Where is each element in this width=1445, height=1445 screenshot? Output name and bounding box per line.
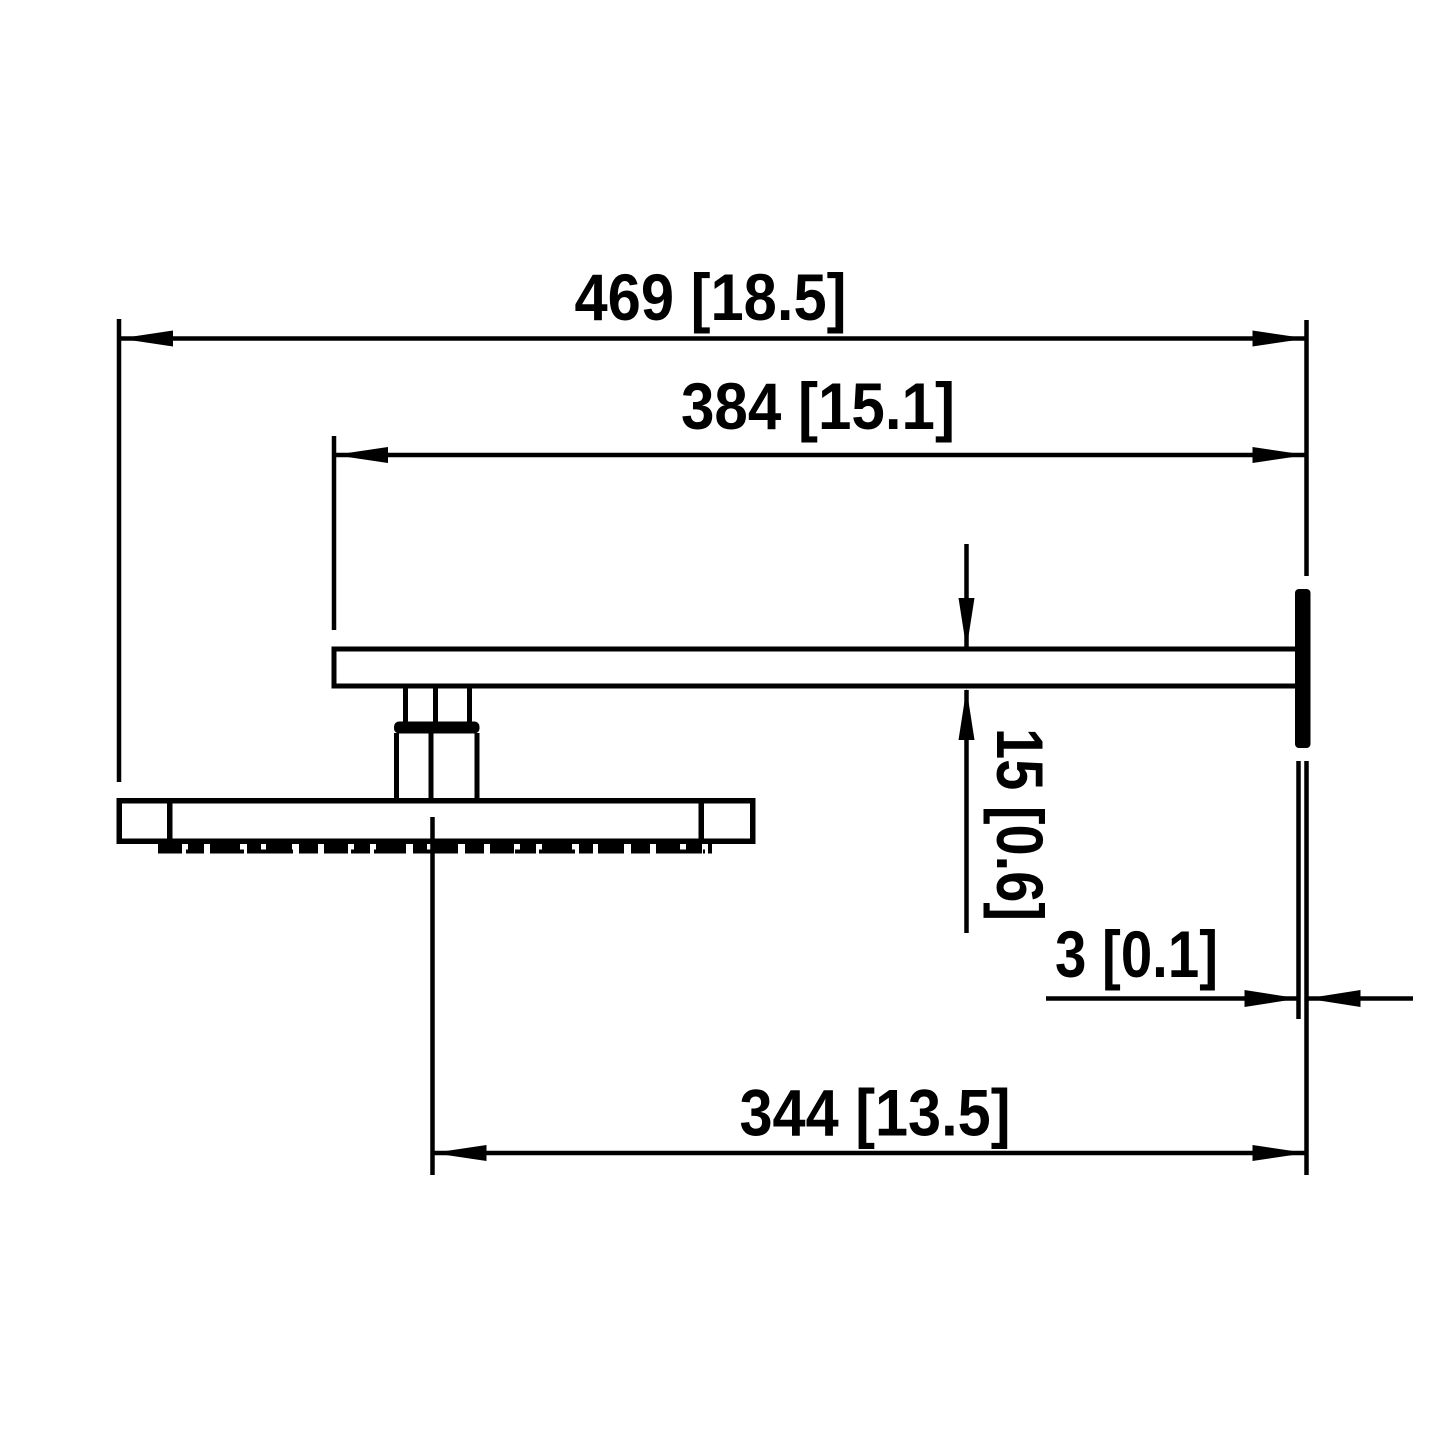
svg-text:384 [15.1]: 384 [15.1] xyxy=(681,369,955,443)
svg-text:344 [13.5]: 344 [13.5] xyxy=(740,1076,1011,1150)
svg-text:3 [0.1]: 3 [0.1] xyxy=(1055,917,1218,991)
svg-text:469 [18.5]: 469 [18.5] xyxy=(575,260,847,334)
svg-text:15 [0.6]: 15 [0.6] xyxy=(983,728,1057,921)
